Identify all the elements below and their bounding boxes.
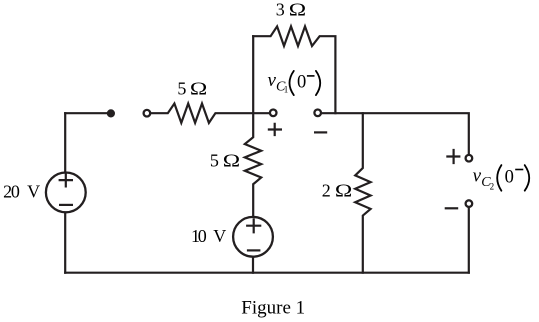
- svg-text:V: V: [213, 226, 226, 246]
- svg-text:0: 0: [11, 182, 20, 202]
- svg-text:1: 1: [284, 85, 289, 95]
- svg-text:Ω: Ω: [190, 78, 207, 99]
- svg-text:Ω: Ω: [335, 180, 352, 201]
- svg-text:5: 5: [210, 150, 219, 170]
- svg-text:2: 2: [322, 181, 331, 201]
- svg-text:5: 5: [177, 79, 186, 99]
- svg-text:0: 0: [505, 167, 514, 187]
- svg-text:2: 2: [490, 182, 495, 192]
- svg-text:V: V: [27, 182, 40, 202]
- svg-text:3: 3: [276, 0, 285, 20]
- svg-text:Ω: Ω: [223, 150, 240, 171]
- svg-text:0: 0: [297, 73, 306, 93]
- svg-text:Figure 1: Figure 1: [241, 297, 305, 318]
- svg-text:Ω: Ω: [289, 0, 306, 20]
- svg-text:0: 0: [198, 226, 207, 246]
